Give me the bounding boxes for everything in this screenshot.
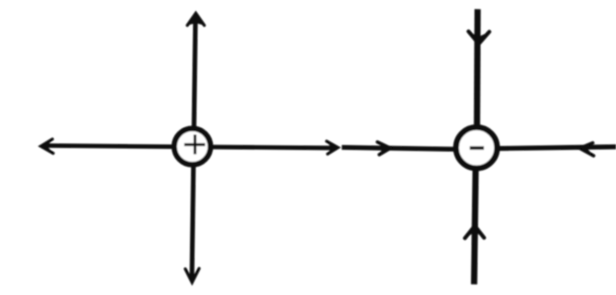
arrowhead: - charge right ray (points left) — [580, 143, 594, 156]
wire: negative charge bottom ray — [474, 155, 476, 284]
arrowhead: - charge left ray (points right) — [377, 142, 390, 155]
plus sign horizontal bar — [184, 143, 205, 146]
negative charge circle — [456, 127, 497, 168]
arrowhead: + charge right tip (points right) — [327, 141, 338, 154]
wire: negative charge left ray — [342, 147, 465, 149]
plus sign vertical bar — [194, 135, 197, 155]
arrowhead: - charge top ray (points down) — [469, 31, 490, 43]
wire: positive charge vertical ray — [192, 17, 196, 280]
minus sign bar — [470, 146, 484, 149]
arrowhead: - charge bottom ray (points up) — [465, 226, 484, 238]
wire: negative charge top ray — [474, 9, 481, 140]
wire: negative charge right ray — [490, 147, 616, 149]
arrowhead: + charge top tip (points up) — [187, 13, 204, 25]
arrowhead: + charge left tip (points left) — [41, 139, 53, 153]
positive charge circle — [174, 128, 210, 164]
wire: positive charge horizontal ray — [45, 146, 335, 148]
arrowhead: + charge bottom tip (points down) — [185, 269, 199, 283]
